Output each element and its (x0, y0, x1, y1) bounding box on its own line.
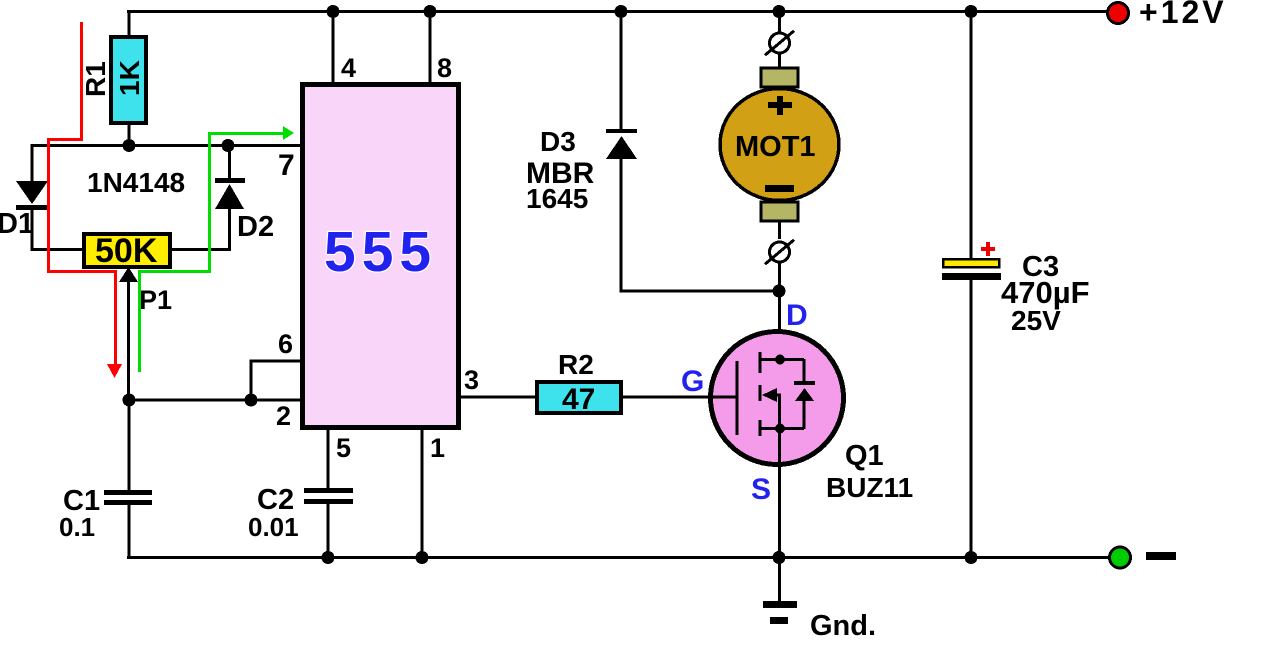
pin label 7 (278, 149, 295, 182)
wire bottom minus rail (127, 556, 1109, 559)
node pin1 rail junction (416, 551, 429, 564)
pin label 6 (278, 329, 293, 359)
wire connector to node D (778, 262, 781, 292)
wire drain (778, 291, 781, 361)
diode D1 (16, 181, 48, 210)
connector top (764, 30, 795, 57)
wire green trace (138, 126, 294, 372)
svg-text:2: 2 (276, 401, 291, 431)
svg-text:47: 47 (562, 383, 595, 416)
svg-text:Q1: Q1 (845, 440, 884, 472)
value 0.1 (59, 512, 95, 542)
svg-text:G: G (681, 365, 704, 398)
svg-text:25V: 25V (1011, 305, 1061, 336)
resistor R2 (537, 382, 621, 416)
Q1 body diode (794, 359, 815, 429)
svg-text:P1: P1 (139, 285, 172, 315)
motor MOT1 (720, 89, 839, 201)
wire D1 bottom (31, 210, 86, 251)
value 470uF (1001, 275, 1090, 310)
wire connector to terminal (778, 53, 781, 69)
value 25V (1011, 305, 1061, 336)
svg-text:D3: D3 (540, 126, 576, 157)
label D1 (0, 208, 34, 240)
svg-text:6: 6 (278, 329, 293, 359)
svg-text:0.01: 0.01 (248, 512, 299, 542)
wire pin 3 (461, 396, 535, 399)
label D3 (540, 126, 576, 157)
svg-text:1: 1 (430, 433, 445, 463)
svg-text:5: 5 (336, 433, 351, 463)
wire terminal to connector bottom (778, 221, 781, 239)
label MBR (526, 157, 595, 190)
wire R1 top (128, 10, 131, 37)
node R1/pin7 junction (123, 139, 136, 152)
node source rail junction (773, 551, 786, 564)
terminal minus green (1110, 547, 1131, 568)
label D (786, 299, 808, 332)
wire R2 to gate (623, 396, 708, 399)
svg-text:+12V: +12V (1139, 0, 1227, 30)
wire pin 8 (429, 13, 432, 82)
label C3 (1022, 251, 1059, 283)
capacitor C1 (104, 400, 152, 558)
wire pin 7 horizontal (31, 144, 300, 147)
motor terminal top (761, 68, 798, 87)
node pin6 jog junction (245, 394, 258, 407)
Q1 source link (760, 424, 804, 434)
label R2 (558, 349, 594, 380)
potentiometer P1 50K (84, 232, 170, 270)
label 1N4148 (87, 167, 185, 198)
svg-text:555: 555 (324, 220, 437, 284)
node C3 rail junction (965, 551, 978, 564)
wire pin 2 horizontal (129, 399, 300, 402)
svg-text:1N4148: 1N4148 (87, 167, 185, 198)
label minus (1146, 552, 1176, 560)
pin label 5 (336, 433, 351, 463)
value 0.01 (248, 512, 299, 542)
Q1 channel segments (759, 352, 762, 436)
svg-text:BUZ11: BUZ11 (826, 472, 913, 503)
resistor R1 (111, 37, 146, 123)
node D junction (773, 285, 786, 298)
label S (751, 473, 771, 506)
wire R1 bottom (128, 123, 131, 145)
diode D2 (215, 178, 245, 209)
capacitor C3 plus (981, 242, 995, 256)
node pin2/C1 junction (123, 394, 136, 407)
wire D2 bottom (168, 209, 231, 251)
Q1 substrate arrow (762, 388, 781, 429)
node junction rail pin4 (327, 5, 340, 18)
wire source (778, 428, 781, 558)
label Gnd. (810, 610, 876, 642)
wire motor top (778, 13, 781, 33)
wire pin 4 (332, 13, 335, 82)
svg-text:D: D (786, 299, 808, 332)
svg-text:S: S (751, 473, 771, 506)
Q1 gate bar (736, 361, 739, 435)
pin label 3 (464, 365, 479, 395)
transistor Q1 body (711, 332, 844, 465)
svg-text:D1: D1 (0, 208, 34, 240)
wire pin 5 (327, 430, 330, 488)
svg-text:8: 8 (437, 53, 452, 83)
Q1 gate lead inside (708, 396, 737, 399)
terminal +12V red (1108, 3, 1129, 24)
node junction rail D3 (615, 5, 628, 18)
value 1K (114, 60, 145, 96)
pin label 4 (341, 53, 356, 83)
svg-text:R2: R2 (558, 349, 594, 380)
wire C3 top (970, 13, 973, 258)
label +12V (1139, 0, 1227, 30)
wire red trace (47, 22, 122, 378)
svg-text:R1: R1 (80, 61, 111, 97)
svg-text:4: 4 (341, 53, 356, 83)
label C1 (63, 485, 100, 517)
svg-text:50K: 50K (95, 232, 158, 270)
label R1 (80, 61, 111, 97)
svg-text:1645: 1645 (526, 183, 588, 214)
node junction rail motor (773, 5, 786, 18)
connector bottom (764, 239, 795, 266)
node D2 top junction (222, 139, 235, 152)
capacitor C3 (942, 259, 1001, 558)
motor terminal bottom (761, 202, 798, 221)
wire D1 top (31, 144, 34, 181)
svg-text:Gnd.: Gnd. (810, 610, 876, 642)
label 1645 (526, 183, 588, 214)
node C2 rail junction (322, 551, 335, 564)
pin label 1 (430, 433, 445, 463)
node junction rail pin8 (424, 5, 437, 18)
label D2 (237, 211, 274, 243)
pin label 2 (276, 401, 291, 431)
capacitor C2 (304, 488, 353, 558)
svg-text:D2: D2 (237, 211, 274, 243)
Q1 drain link (760, 355, 804, 365)
op-amp/timer U1 555 (303, 85, 459, 428)
label 555 (324, 220, 437, 284)
label BUZ11 (826, 472, 913, 503)
label Q1 (845, 440, 884, 472)
svg-text:3: 3 (464, 365, 479, 395)
node junction rail C3 (965, 5, 978, 18)
svg-text:7: 7 (278, 149, 295, 182)
pin label 8 (437, 53, 452, 83)
ground wire (778, 558, 781, 601)
diode D3 (606, 13, 780, 293)
wire pin 6 stub (250, 360, 301, 401)
ground (763, 601, 797, 624)
wire D2 top (228, 144, 231, 178)
wiper arrow P1 (119, 267, 138, 401)
label C2 (257, 484, 294, 516)
svg-text:MOT1: MOT1 (735, 131, 816, 163)
wire pin 1 (421, 430, 424, 558)
label G (681, 365, 704, 398)
wire top +12V rail (127, 10, 1107, 13)
svg-text:1K: 1K (114, 60, 145, 96)
svg-text:0.1: 0.1 (59, 512, 95, 542)
label P1 (139, 285, 172, 315)
